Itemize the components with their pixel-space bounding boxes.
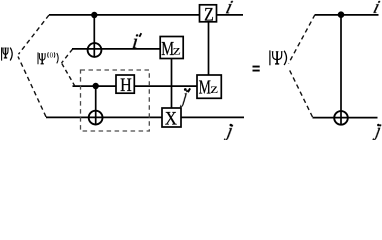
CNOT right target bbox=[334, 111, 348, 125]
svg-text:z: z bbox=[210, 82, 218, 97]
svg-text:Z: Z bbox=[204, 3, 214, 25]
measurement Mz2 bbox=[197, 75, 221, 98]
measurement Mz1 bbox=[160, 37, 183, 60]
svg-text:X: X bbox=[165, 108, 177, 129]
ket psi label (right) bbox=[270, 50, 287, 65]
CNOT 1 control dot bbox=[91, 12, 97, 18]
gate Z bbox=[200, 3, 217, 25]
fan dashed Psi lower bbox=[18, 57, 46, 117]
CNOT 1 target bbox=[88, 43, 102, 57]
svg-text:j: j bbox=[224, 120, 235, 140]
ket Psi0 label bbox=[38, 52, 58, 64]
classical line Z to Mz2 bbox=[208, 22, 210, 76]
equals sign bbox=[253, 66, 260, 72]
wire j (right circuit) bbox=[313, 117, 378, 119]
wire i (left circuit, top) bbox=[49, 14, 243, 16]
label i' bbox=[131, 29, 141, 53]
wire i (right circuit) bbox=[315, 14, 379, 16]
CNOT right vertical bbox=[340, 15, 342, 125]
label j' bbox=[180, 85, 190, 107]
svg-text:H: H bbox=[120, 74, 132, 96]
wire j (left circuit, bottom) bbox=[46, 116, 244, 118]
CNOT 2 vertical bbox=[95, 86, 97, 125]
svg-text:z: z bbox=[173, 43, 181, 58]
wire i' (left circuit, second) bbox=[72, 48, 161, 50]
svg-text:i: i bbox=[371, 0, 382, 18]
CNOT 2 control dot bbox=[93, 83, 99, 89]
fan dashed psi lower (right) bbox=[289, 69, 313, 117]
svg-text:0: 0 bbox=[50, 52, 54, 59]
svg-text:j: j bbox=[372, 120, 382, 140]
fan dashed Psi upper bbox=[19, 15, 50, 54]
classical line Mz1 to X bbox=[171, 58, 173, 109]
ket Psi label bbox=[2, 47, 13, 60]
CNOT 1 vertical bbox=[93, 15, 95, 57]
svg-text:M: M bbox=[199, 76, 211, 98]
fan dashed Psi0 upper bbox=[62, 49, 73, 63]
gate X bbox=[162, 108, 181, 129]
fan dashed psi upper (right) bbox=[289, 15, 316, 64]
fan dashed Psi0 lower bbox=[62, 63, 76, 86]
wire j' (left circuit, third) bbox=[73, 85, 199, 87]
CNOT 2 target bbox=[89, 111, 103, 125]
CNOT right control dot bbox=[338, 11, 345, 18]
gate H bbox=[116, 74, 134, 96]
dashed box around disentangling gates bbox=[81, 70, 150, 131]
